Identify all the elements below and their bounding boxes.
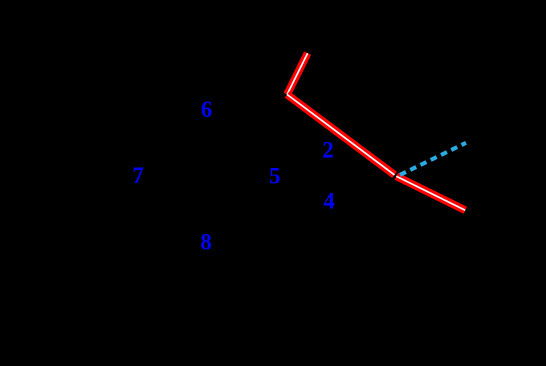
svg-text:8: 8 [200, 230, 211, 255]
bond highlight red segment 2 (middle diagonal) [287, 95, 394, 175]
svg-text:7: 7 [132, 163, 143, 188]
bond highlight cyan dashed (stereo bond) [400, 143, 466, 175]
svg-text:6: 6 [201, 97, 212, 122]
bond highlight red segment 1 (top, C1-C2 up) [287, 53, 308, 94]
svg-text:5: 5 [269, 163, 280, 188]
svg-text:2: 2 [322, 137, 333, 162]
bond highlight red segment 3 (lower right) [396, 176, 465, 210]
svg-text:4: 4 [323, 189, 334, 214]
